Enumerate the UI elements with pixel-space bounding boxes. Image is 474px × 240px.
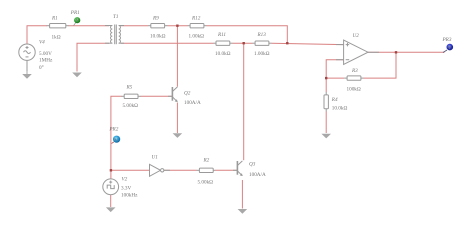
resistor R5 <box>121 85 141 110</box>
transistor Q2 <box>168 87 178 102</box>
svg-text:R4: R4 <box>331 96 338 103</box>
svg-text:1.00kΩ: 1.00kΩ <box>189 34 205 40</box>
svg-text:1MHz: 1MHz <box>39 58 53 64</box>
wire R5 right to Q2 base <box>141 95 173 97</box>
node junction rail2 / Q3 collector <box>243 42 245 44</box>
svg-text:5.00V: 5.00V <box>39 51 52 57</box>
svg-text:100kHz: 100kHz <box>121 193 138 199</box>
ground (Q3) <box>238 209 248 214</box>
svg-text:V4: V4 <box>39 39 45 46</box>
svg-text:U2: U2 <box>353 33 360 39</box>
wire rail1: T1 secondary top through R9, R12 to corner <box>121 25 148 27</box>
probe PR2 <box>108 127 120 144</box>
wire V2 bottom to ground <box>110 195 112 207</box>
wire rail2: R11 to R13 <box>233 42 253 44</box>
wire V2 junction to U1 input <box>111 169 150 171</box>
wire inverting node down to R4 <box>325 78 327 92</box>
svg-text:R3: R3 <box>351 68 358 74</box>
wire Q2 collector to rail1 <box>176 26 178 87</box>
svg-text:V: V <box>76 19 80 24</box>
svg-text:Q3: Q3 <box>249 162 256 168</box>
svg-text:U1: U1 <box>152 154 159 160</box>
AC source V4 <box>19 44 35 71</box>
ground (R4) <box>321 134 331 139</box>
svg-text:R9: R9 <box>152 16 159 22</box>
wire R5 left corner down to V2 junction <box>111 96 122 179</box>
svg-text:R1: R1 <box>51 15 58 21</box>
svg-text:5.00kΩ: 5.00kΩ <box>198 179 214 185</box>
svg-text:PR1: PR1 <box>70 10 80 16</box>
wire R4 bottom to ground <box>325 112 327 134</box>
node junction op-amp output / feedback <box>395 51 397 53</box>
wire U1 output to R2 <box>164 169 197 171</box>
node junction inverting / R3 / R4 <box>325 77 327 79</box>
probe PR1 <box>70 10 80 26</box>
svg-text:1kΩ: 1kΩ <box>52 35 61 41</box>
wire op-amp output to PR3 <box>368 51 445 53</box>
node junction rail1 / Q2 collector <box>176 25 178 27</box>
wire Q2 emitter to ground <box>176 103 178 134</box>
node junction V2 / U1 input <box>110 169 112 171</box>
svg-text:10.0kΩ: 10.0kΩ <box>332 106 348 112</box>
svg-text:R2: R2 <box>203 158 210 164</box>
wire inverting node up to op-amp - input <box>326 60 343 78</box>
transformer T1 <box>105 25 124 45</box>
wire rail2: R13 to op-amp + input <box>272 43 344 44</box>
square-wave source V2 <box>103 179 119 195</box>
transistor Q3 <box>233 161 243 176</box>
wire output junction down to feedback rail <box>364 52 397 78</box>
svg-text:Q2: Q2 <box>184 90 191 96</box>
resistor R12 <box>188 16 207 40</box>
wire Q3 collector to rail2 <box>243 43 245 160</box>
svg-text:PR3: PR3 <box>442 37 452 43</box>
node junction rail1 corner / rail2 <box>286 42 288 44</box>
svg-text:100A/A: 100A/A <box>249 172 266 178</box>
svg-text:R12: R12 <box>191 16 201 22</box>
probe PR3 <box>442 37 454 53</box>
svg-text:0°: 0° <box>39 64 44 71</box>
svg-text:100kΩ: 100kΩ <box>347 86 361 92</box>
resistor R1 <box>47 15 69 40</box>
svg-text:5.00kΩ: 5.00kΩ <box>123 103 139 109</box>
resistor R2 <box>197 158 216 186</box>
svg-text:1.00kΩ: 1.00kΩ <box>254 51 270 57</box>
svg-text:T1: T1 <box>113 14 119 20</box>
ground (V2) <box>106 207 116 212</box>
resistor R11 <box>214 32 233 57</box>
wire R2 to Q3 base <box>215 169 237 171</box>
svg-text:R5: R5 <box>126 85 133 91</box>
ground (Q2) <box>173 133 183 138</box>
svg-text:100A/A: 100A/A <box>184 100 201 106</box>
resistor R4 <box>324 92 347 112</box>
resistor R13 <box>253 32 272 57</box>
wire rail2: T1 secondary bottom to R11 <box>121 42 214 44</box>
svg-text:V2: V2 <box>122 176 128 182</box>
svg-text:10.0kΩ: 10.0kΩ <box>215 51 231 57</box>
svg-text:R13: R13 <box>257 32 267 38</box>
ground (V4) <box>22 71 32 79</box>
wire R3 left to inverting node <box>326 77 344 79</box>
wire V4 top to R1 <box>27 26 47 45</box>
wire T1 primary bottom to ground <box>77 43 109 71</box>
wire R1 to transformer T1 primary top <box>69 25 110 27</box>
resistor R3 <box>344 68 363 92</box>
op-amp U2 <box>336 40 379 64</box>
svg-text:3.3V: 3.3V <box>121 185 131 191</box>
wire Q3 emitter to ground <box>241 180 243 209</box>
svg-text:10.0kΩ: 10.0kΩ <box>150 34 166 40</box>
resistor R9 <box>148 16 168 40</box>
inverter U1 <box>150 164 164 176</box>
svg-text:R11: R11 <box>217 32 226 38</box>
ground (T1 secondary return) <box>72 73 82 78</box>
svg-text:PR2: PR2 <box>108 127 118 133</box>
